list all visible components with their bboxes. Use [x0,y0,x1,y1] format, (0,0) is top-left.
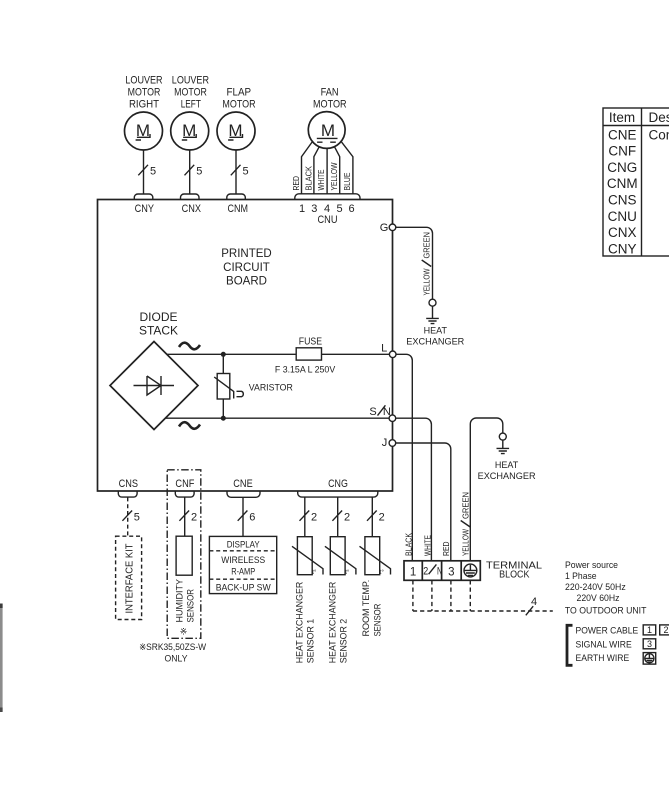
svg-text:Item: Item [609,110,635,125]
svg-text:CNS: CNS [608,193,637,208]
fan wire YELLOW [334,147,339,194]
label DIODE STACK [139,310,178,337]
svg-text:1: 1 [299,203,305,215]
varistor diagonal with U mark [214,377,243,399]
legend bracket [567,625,573,665]
wire S/N to terminal 2/N [396,418,432,560]
CNF dash-dot box [167,470,201,639]
svg-text:SENSOR: SENSOR [372,603,382,636]
label VARISTOR [249,382,293,393]
label FUSE [299,336,323,347]
table row CNS [608,193,637,208]
svg-text:MOTOR: MOTOR [313,99,347,111]
wire CNG to heat exchanger sensor 1 [300,497,318,536]
label BLACK [303,166,313,191]
legend POWER CABLE [576,625,639,635]
svg-text:MOTOR: MOTOR [222,99,255,111]
label CNF [175,478,194,490]
label CNY [135,203,155,215]
connector CNE bump bottom [227,491,260,497]
svg-text:FAN: FAN [321,87,339,99]
connector circle heat exchanger 2 [499,433,506,440]
label BLUE [342,172,352,190]
svg-text:CNG: CNG [328,478,348,490]
legend box 2 [660,625,669,635]
svg-text:FLAP: FLAP [227,87,252,99]
svg-text:2: 2 [379,511,385,523]
pin numbers 1 3 4 5 6 [299,203,355,215]
svg-text:GREEN: GREEN [461,492,471,519]
wire L to terminal 1 [396,354,412,560]
svg-text:Description: Description [649,110,669,125]
svg-text:SENSOR 1: SENSOR 1 [306,619,316,664]
svg-text:CNX: CNX [182,203,202,215]
svg-text:TO OUTDOOR UNIT: TO OUTDOOR UNIT [565,606,647,617]
svg-text:HEAT: HEAT [424,326,448,336]
svg-text:R-AMP: R-AMP [231,566,255,577]
svg-text:HEAT EXCHANGER: HEAT EXCHANGER [327,581,337,663]
wire CNG to room temp sensor [367,497,385,536]
wire CNF to humidity sensor [179,497,197,536]
svg-text:WIRELESS: WIRELESS [221,555,265,566]
table row CNE [608,127,669,142]
svg-text:CNE: CNE [608,127,637,142]
label HEAT EXCHANGER 1 [406,326,465,347]
svg-text:STACK: STACK [139,323,178,337]
heat exchanger sensor 1 thermistor [292,537,323,576]
connector table [603,108,669,256]
label DISPLAY [227,540,261,551]
terminal 1 label [410,567,416,579]
dashed wire terminal 3 down [450,580,452,611]
wire varistor vertical [222,354,224,418]
label LOUVER MOTOR LEFT [172,75,209,111]
diode stack bridge diamond [110,342,198,430]
svg-text:FUSE: FUSE [299,336,323,347]
legend SIGNAL WIRE [576,639,632,649]
svg-text:SENSOR 2: SENSOR 2 [339,619,349,664]
svg-text:2: 2 [191,511,197,523]
wire louver right to CNY [138,150,156,194]
table row CNU [608,209,637,224]
label CNM [228,203,249,215]
svg-text:CNM: CNM [228,203,249,215]
svg-text:CNF: CNF [175,478,194,490]
table row CNF [608,144,636,159]
svg-text:4: 4 [531,596,537,608]
svg-text:1 Phase: 1 Phase [565,571,597,582]
label WHITE [316,169,326,190]
svg-text:t°: t° [380,570,385,576]
room temp sensor thermistor [360,537,391,576]
legend box 1 [643,625,656,635]
fan wire BLUE [341,142,353,194]
label CNS [119,478,138,490]
table row CNM [607,176,638,191]
wire earth yellow/green to heat exchanger 2 [470,418,503,561]
svg-text:S: S [369,406,376,418]
svg-text:PRINTED: PRINTED [221,248,271,260]
humidity sensor body [176,536,192,575]
svg-text:MOTOR: MOTOR [128,87,161,99]
svg-text:6: 6 [249,511,255,523]
label WHITE vertical [423,535,433,556]
svg-text:3: 3 [448,567,454,579]
svg-text:EARTH WIRE: EARTH WIRE [576,653,630,663]
wire louver left to CNX [185,150,203,194]
label LOUVER MOTOR RIGHT [125,75,162,111]
svg-text:220-240V 50Hz: 220-240V 50Hz [565,582,626,593]
label fuse rating F 3.15A L 250V [275,365,335,375]
svg-text:※SRK35,50ZS-W: ※SRK35,50ZS-W [139,642,206,652]
terminal G [380,222,396,234]
svg-text:6: 6 [348,203,354,215]
label SRK35,50ZS-W ONLY [139,642,206,664]
label WIRELESS R-AMP [221,555,265,577]
heat exchanger sensor 2 thermistor [325,537,356,576]
dashed wire to outdoor unit [413,596,553,616]
svg-text:CNX: CNX [608,225,637,240]
AC tilde bottom [179,422,200,429]
label HEAT EXCHANGER SENSOR 1 vertical [294,581,315,663]
svg-text:5: 5 [134,511,140,523]
svg-text:YELLOW: YELLOW [422,269,432,296]
connector CNS bump bottom [118,491,137,497]
label CNG [328,478,348,490]
label YELLOW [329,163,339,191]
dashed wire terminal 1 down [412,580,414,611]
svg-text:DISPLAY: DISPLAY [227,540,261,551]
label Power source [565,560,626,604]
connector CNY bump [134,194,153,200]
svg-text:J: J [382,437,388,449]
label HEAT EXCHANGER 2 [478,460,537,481]
wire L line from bridge to L terminal [167,353,390,355]
svg-text:CNY: CNY [608,241,637,256]
svg-text:2: 2 [311,511,317,523]
printed circuit board outline [98,200,393,492]
table header Item [609,110,635,125]
svg-text:GREEN: GREEN [422,232,432,259]
svg-text:MOTOR: MOTOR [174,87,207,99]
svg-text:M: M [321,121,335,140]
scan artifact bar left edge [0,604,3,713]
svg-text:BLACK: BLACK [303,166,313,191]
svg-text:Power source: Power source [565,560,618,571]
svg-text:LOUVER: LOUVER [125,75,162,87]
fan wire BLACK [314,147,319,194]
motor M flap [217,112,255,150]
svg-text:1: 1 [410,567,416,579]
label BACK-UP SW [216,582,271,593]
svg-text:3: 3 [311,203,317,215]
display unit box [209,536,276,593]
terminal J [382,437,396,449]
svg-text:L: L [381,342,387,354]
connector CNF bump bottom [175,491,194,497]
label CNX [182,203,202,215]
connector CNG bump bottom [298,491,378,497]
connector CNM bump [227,194,246,200]
svg-text:BACK-UP SW: BACK-UP SW [216,582,271,593]
connector CNU bump [295,194,360,200]
label YELLOW/GREEN vertical 2 [461,492,471,556]
label BLACK vertical [403,533,413,556]
terminal 3 label [448,567,454,579]
svg-text:※: ※ [180,627,188,637]
svg-text:220V 60Hz: 220V 60Hz [577,593,620,604]
table row CNG [607,160,637,175]
junction dot top varistor [221,352,226,357]
svg-text:CNU: CNU [318,214,338,226]
svg-text:N: N [437,566,442,578]
fan wire WHITE [326,148,328,194]
svg-text:ROOM TEMP.: ROOM TEMP. [361,580,371,637]
terminal S/N [369,405,395,421]
svg-text:WHITE: WHITE [316,169,326,190]
svg-text:1: 1 [647,625,652,635]
svg-text:5: 5 [196,166,202,178]
svg-text:CNU: CNU [608,209,637,224]
legend EARTH WIRE [576,653,630,663]
svg-text:5: 5 [243,166,249,178]
table header Description [649,110,669,125]
svg-text:2: 2 [423,566,428,578]
svg-text:HEAT: HEAT [495,460,519,470]
svg-text:SENSOR: SENSOR [186,589,197,623]
label RED [291,176,301,191]
svg-text:WHITE: WHITE [423,535,433,556]
terminal earth symbol [464,564,477,577]
svg-text:3: 3 [647,639,652,649]
wire flap to CNM [231,150,249,194]
terminal 2/N label [423,564,442,577]
svg-text:t°: t° [312,570,317,576]
label YELLOW/GREEN vertical [422,232,432,296]
terminal block outline [404,561,480,581]
svg-text:2: 2 [663,625,668,635]
wire J to terminal 3 [396,443,451,561]
svg-text:CNS: CNS [119,478,138,490]
label TO OUTDOOR UNIT [565,606,647,617]
svg-text:BLACK: BLACK [403,533,413,556]
AC tilde top [179,343,200,350]
svg-text:CNF: CNF [608,144,636,159]
label INTERFACE KIT vertical [124,543,135,613]
label TERMINAL BLOCK [486,560,542,581]
svg-text:HEAT EXCHANGER: HEAT EXCHANGER [294,581,304,663]
reference mark below humidity sensor [180,627,188,637]
ground symbol heat exchanger 2 [497,440,510,454]
table row CNY [608,241,637,256]
svg-text:YELLOW: YELLOW [329,163,339,191]
label CNU [318,214,338,226]
connector circle heat exchanger 1 [429,299,436,306]
label PRINTED CIRCUIT BOARD [221,248,271,288]
wire CNE to display unit [238,497,256,536]
svg-text:ONLY: ONLY [165,654,188,664]
legend box 3 [643,639,656,649]
svg-text:LOUVER: LOUVER [172,75,209,87]
svg-text:CIRCUIT: CIRCUIT [223,262,270,274]
motor M louver right [125,112,163,150]
fuse body F1 [296,348,321,360]
svg-text:2: 2 [344,511,350,523]
svg-text:CNM: CNM [607,176,638,191]
fan wire RED [302,142,313,194]
label RED vertical [441,542,451,557]
svg-text:SIGNAL WIRE: SIGNAL WIRE [576,639,632,649]
connector CNX bump [181,194,200,200]
svg-text:INTERFACE KIT: INTERFACE KIT [124,543,135,613]
svg-text:Connector: Connector [649,127,669,142]
svg-text:CNG: CNG [607,160,637,175]
ground symbol heat exchanger 1 [426,306,439,323]
svg-text:VARISTOR: VARISTOR [249,382,293,393]
svg-text:DIODE: DIODE [139,310,177,324]
label ROOM TEMP SENSOR vertical [361,580,382,637]
wire CNG to heat exchanger sensor 2 [332,497,350,536]
label FAN MOTOR [313,87,347,111]
dashed wire terminal 2/N down [431,580,433,611]
motor M fan [308,112,345,149]
label FLAP MOTOR [222,87,255,111]
svg-text:5: 5 [150,166,156,178]
legend earth box [643,653,656,665]
svg-text:t°: t° [345,570,350,576]
svg-text:POWER CABLE: POWER CABLE [576,625,639,635]
label HEAT EXCHANGER SENSOR 2 vertical [327,581,348,663]
dashed wire earth down [469,580,471,611]
terminal L [381,342,396,357]
svg-text:G: G [380,222,389,234]
dashed wire CNS to interface kit [122,497,140,536]
varistor body [217,374,230,400]
svg-text:BLUE: BLUE [342,172,352,190]
svg-text:EXCHANGER: EXCHANGER [406,337,465,347]
label CNE [233,478,252,490]
svg-text:EXCHANGER: EXCHANGER [478,471,537,481]
svg-text:RED: RED [291,176,301,191]
svg-text:LEFT: LEFT [181,99,201,111]
svg-text:RIGHT: RIGHT [129,99,159,111]
svg-text:CNY: CNY [135,203,155,215]
label HUMIDITY SENSOR vertical [174,578,196,622]
wire G to heat exchanger ground [396,227,433,299]
svg-text:CNE: CNE [233,478,252,490]
wire N line from bridge to S/N terminal [165,417,389,419]
interface kit box dashed [116,536,142,619]
diode symbol inside bridge [134,376,175,395]
svg-text:BLOCK: BLOCK [499,569,529,581]
svg-text:HUMIDITY: HUMIDITY [174,578,185,622]
svg-text:RED: RED [441,542,451,557]
svg-text:YELLOW: YELLOW [461,529,471,556]
table row CNX [608,225,637,240]
svg-text:BOARD: BOARD [226,276,267,288]
motor M louver left [171,112,209,150]
junction dot bottom varistor [221,416,226,421]
svg-text:F 3.15A L 250V: F 3.15A L 250V [275,365,335,375]
